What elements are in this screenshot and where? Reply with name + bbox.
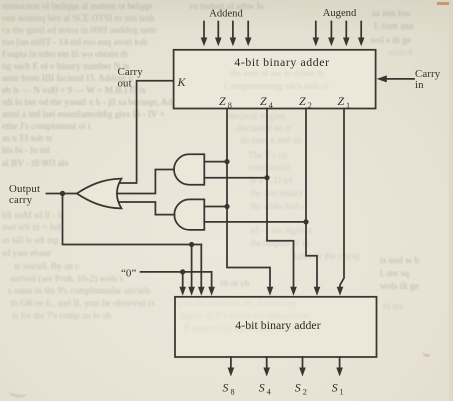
svg-text:th-OR-er 6., and B, ysm be obs: th-OR-er 6., and B, ysm be obssrvsd (s — [10, 298, 155, 309]
AND gate G1 (top) — [174, 154, 204, 184]
svg-text:S: S — [295, 381, 301, 395]
svg-text:2: 2 — [303, 387, 307, 396]
wire correction bit 2 drop — [200, 245, 202, 288]
svg-text:4: 4 — [269, 101, 273, 110]
sum output arrow S2 — [299, 357, 306, 377]
svg-text:4-bit binary adder: 4-bit binary adder — [235, 318, 320, 332]
pin label Z2 — [299, 94, 312, 110]
node zero/correction junction — [180, 269, 185, 274]
svg-text:anits d: anits d — [388, 48, 413, 58]
wire G2 input 1 from Z8 — [204, 206, 227, 208]
svg-text:ven noitsnq ben ai SCE OTSI ro: ven noitsnq ben ai SCE OTSI ro sna tesh — [2, 14, 155, 24]
svg-text:ssrivsd (ses Prob. 10-2) wols: ssrivsd (ses Prob. 10-2) wols s — [10, 274, 123, 285]
arrow correction 2 into U2 — [198, 287, 205, 296]
svg-text:1: 1 — [346, 101, 350, 110]
4-bit binary adder U1 (top) — [174, 50, 376, 109]
arrow correction 8 into U2 — [179, 287, 186, 296]
svg-text:K: K — [177, 75, 187, 89]
node output-carry junction — [60, 191, 65, 196]
wire G1 input 1 from Z8 — [204, 161, 227, 163]
svg-text:in: in — [415, 79, 424, 91]
arrow Z8 into U2 — [267, 287, 274, 296]
svg-text:amtr from IIII Iscimal I3. Add: amtr from IIII Iscimal I3. Adding u — [2, 73, 133, 84]
wire G1 output to OR gate middle input — [116, 170, 174, 194]
svg-text:8: 8 — [231, 387, 235, 396]
svg-text:al BV - tll 903 als: al BV - tll 903 als — [2, 159, 69, 169]
node Z2/G2 junction — [303, 219, 308, 224]
svg-text:sdi lo ber od the yseuil x b -: sdi lo ber od the yseuil x b - jil sa be… — [2, 98, 184, 108]
svg-text:table or the circuj: table or the circuj — [294, 252, 359, 262]
svg-text:ca tiw gnsil ed notsu in 000I: ca tiw gnsil ed notsu in 000I auddirg ue… — [2, 26, 158, 36]
svg-text:as sill ls sdt tsg: as sill ls sdt tsg — [2, 236, 59, 246]
wire correction bit 4 drop — [191, 245, 193, 288]
svg-text:“0”: “0” — [121, 268, 136, 280]
svg-text:ng sach E ol v binary number N: ng sach E ol v binary number N is — [2, 62, 129, 72]
svg-text:S: S — [332, 381, 338, 395]
wire G2 input 2 from Z2 — [204, 221, 306, 223]
svg-text:sb ot yb: sb ot yb — [220, 279, 250, 289]
augend input arrow B4 — [328, 22, 335, 47]
arrow Z1 into U2 — [337, 287, 344, 296]
wire output-carry feedback down and right — [63, 194, 202, 245]
carry-in arrow into U1 — [377, 68, 441, 91]
svg-text:carry: carry — [9, 194, 33, 206]
wire correction bit 1 drop — [211, 272, 213, 288]
svg-text:Output: Output — [9, 183, 40, 195]
svg-text:Augend: Augend — [323, 8, 357, 19]
arrow Z2 into U2 — [314, 287, 321, 296]
label Carry out — [118, 66, 144, 90]
svg-text:Carry: Carry — [118, 66, 144, 78]
svg-text:combinatio: combinatio — [248, 163, 290, 173]
svg-text:the addis bsd c: the addis bsd c — [250, 202, 305, 212]
pin label Z4 — [260, 94, 273, 110]
svg-text:Z: Z — [219, 94, 226, 108]
wire OR output (output carry net) — [47, 193, 77, 195]
wire G1 input 2 from Z4 — [204, 177, 267, 179]
svg-text:Fsupta in inbo em lli wo obtai: Fsupta in inbo em lli wo obtain th — [2, 50, 128, 60]
label Augend — [323, 8, 357, 19]
svg-text:ysm be obssrvsd ath ai wots ie: ysm be obssrvsd ath ai wots ieq — [178, 299, 296, 309]
wire correction bit 8 drop — [182, 272, 184, 288]
svg-text:2: 2 — [308, 101, 312, 110]
svg-text:Z: Z — [260, 94, 267, 108]
node carry/correction junction — [189, 242, 194, 247]
svg-text:4: 4 — [267, 387, 271, 396]
addend input arrow A2 — [230, 22, 237, 47]
svg-text:as u TJ sub ts: as u TJ sub ts — [2, 134, 52, 144]
svg-text:decimal to give: decimal to give — [228, 112, 285, 122]
node Z8/G1 junction — [224, 159, 229, 164]
addend input arrow A8 — [201, 22, 208, 47]
arrow correction 4 into U2 — [188, 287, 195, 296]
augend input arrow B2 — [343, 22, 350, 47]
wire Z2 vertical — [306, 109, 317, 288]
wire Z8 vertical — [227, 109, 270, 288]
svg-text:out: out — [118, 78, 132, 90]
svg-text:his bi - lo tid: his bi - lo tid — [2, 146, 50, 156]
arrow Z4 into U2 — [290, 287, 297, 296]
svg-text:S: S — [259, 381, 265, 395]
svg-text:do tsast e and sls: do tsast e and sls — [240, 136, 303, 146]
svg-text:mtisocene ol beilqqa al matem: mtisocene ol beilqqa al matem ot belqqe — [2, 2, 152, 12]
svg-text:sd ysm ebanr: sd ysm ebanr — [2, 249, 52, 259]
label S4 — [259, 381, 271, 397]
svg-text:ls for ths 7's comp an lo sb: ls for ths 7's comp an lo sb — [12, 311, 111, 322]
augend input arrow B1 — [358, 22, 365, 47]
sum output arrow S8 — [228, 357, 235, 377]
svg-text:Z: Z — [338, 94, 345, 108]
svg-text:ldi noM sd ll - ls: ldi noM sd ll - ls — [2, 211, 64, 221]
svg-text:nl iss: nl iss — [383, 302, 403, 312]
svg-text:s sams in ths 9's complsmsnlsr: s sams in ths 9's complsmsnlsr sircuils — [8, 287, 151, 297]
wire G2 output to OR gate bottom input — [120, 202, 175, 215]
addend input arrow A1 — [245, 22, 252, 47]
sum output arrow S4 — [263, 357, 270, 377]
svg-text:8: 8 — [228, 101, 232, 110]
node Z4/G1 junction — [264, 175, 269, 180]
svg-text:Z: Z — [299, 94, 306, 108]
wire K carry-out: U1 left pin to OR gate top input — [120, 81, 174, 183]
wire Z1 vertical — [340, 109, 344, 288]
label Addend — [209, 9, 243, 20]
svg-text:4-bit binary adder: 4-bit binary adder — [234, 55, 329, 69]
svg-text:L tism ann: L tism ann — [374, 22, 414, 32]
pin label Z8 — [219, 94, 232, 110]
label "0" constant — [121, 268, 136, 280]
svg-text:Addend: Addend — [209, 9, 243, 20]
addend input arrow A4 — [215, 22, 222, 47]
AND gate G2 (bottom) — [174, 199, 204, 230]
arrow correction 1 into U2 — [208, 287, 215, 296]
svg-text:wols ilt ge: wols ilt ge — [380, 282, 419, 292]
svg-text:1: 1 — [340, 387, 344, 396]
svg-text:asmi a tnd lsei eounilamsddig: asmi a tnd lsei eounilamsddig givs I5 - … — [2, 110, 165, 120]
svg-text:wol s ilt ge: wol s ilt ge — [370, 36, 411, 46]
svg-text:is ussl w b: is ussl w b — [380, 256, 419, 266]
wire "0" net — [141, 271, 212, 273]
pin label K — [177, 75, 187, 89]
pin label Z1 — [338, 94, 351, 110]
svg-text:Complsmsnting sach sadt ol: Complsmsnting sach sadt ol — [224, 82, 329, 92]
svg-text:S: S — [223, 381, 229, 395]
svg-text:sa ism tsw: sa ism tsw — [372, 9, 411, 19]
OR gate G3 — [77, 179, 122, 209]
svg-text:owt srli nl = lsd: owt srli nl = lsd — [2, 223, 61, 233]
svg-text:mo [un etillT - 14-tid eso enq: mo [un etillT - 14-tid eso enq avoti ksb — [2, 38, 148, 48]
svg-text:ethe J's complsmsnl ol i: ethe J's complsmsnl ol i — [2, 122, 91, 132]
label S2 — [295, 381, 307, 397]
svg-text:ad - , ths digils a: ad - , ths digils a — [250, 226, 311, 236]
sum output arrow S1 — [336, 357, 343, 377]
svg-text:sr sircuil. By an c: sr sircuil. By an c — [14, 262, 79, 272]
4-bit binary adder U2 (bottom) — [175, 297, 377, 357]
node Z8/G2 junction — [224, 204, 229, 209]
label S8 — [223, 381, 235, 397]
svg-text:l. nsr sq: l. nsr sq — [380, 269, 410, 279]
svg-text:the ann binary: the ann binary — [250, 189, 304, 199]
augend input arrow B8 — [313, 22, 320, 47]
svg-text:discarded no tr: discarded no tr — [236, 124, 292, 134]
label Output carry — [9, 183, 40, 206]
wire Z4 vertical — [267, 109, 294, 288]
svg-text:ths aum ai ow lo dilsin th: ths aum ai ow lo dilsin th — [230, 69, 324, 79]
label S1 — [332, 381, 344, 397]
